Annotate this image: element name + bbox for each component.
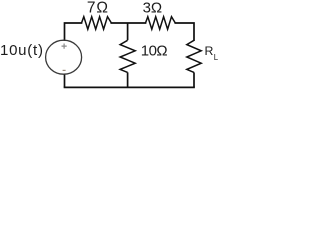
svg-text:7Ω: 7Ω — [87, 0, 109, 17]
svg-text:10Ω: 10Ω — [141, 43, 168, 60]
wire 10ohm bottom lead — [127, 72, 129, 87]
wire between 7ohm and 3ohm with T junction — [111, 22, 145, 24]
wire top-left segment from source to R 7ohm — [65, 23, 82, 40]
wire bottom rail — [65, 86, 195, 88]
label RL — [205, 44, 219, 62]
wire source bottom lead — [64, 75, 66, 88]
wire RL bottom lead — [193, 72, 195, 87]
voltage source minus sign — [63, 69, 66, 71]
voltage source VS circle — [46, 40, 82, 74]
resistor 7ohm horizontal zigzag — [82, 17, 112, 30]
wire top-right segment and corner down to RL — [175, 23, 194, 40]
svg-text:R: R — [205, 44, 214, 58]
resistor 10ohm vertical zigzag — [120, 40, 135, 72]
svg-text:L: L — [214, 53, 219, 62]
wire middle stub down to 10ohm — [127, 23, 129, 40]
svg-text:3Ω: 3Ω — [143, 0, 163, 17]
voltage source plus sign — [62, 44, 67, 49]
resistor RL vertical zigzag — [187, 40, 201, 72]
svg-text:10u(t): 10u(t) — [0, 42, 44, 59]
resistor 3ohm horizontal zigzag — [146, 17, 176, 30]
